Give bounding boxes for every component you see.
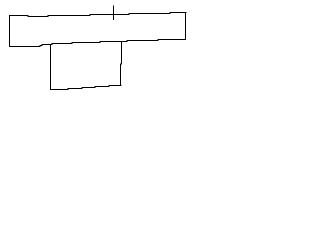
wire right edge of wide loop xyxy=(185,13,187,40)
wire top edge of wide loop xyxy=(10,13,187,17)
wire left edge of wide loop xyxy=(9,16,11,47)
wire left edge of lower loop xyxy=(50,45,52,90)
wire bottom edge of wide loop xyxy=(10,40,186,47)
wire bottom edge of lower loop xyxy=(51,86,122,90)
wire right edge of lower loop xyxy=(121,42,122,86)
tick mark crossing top wire xyxy=(113,6,115,20)
